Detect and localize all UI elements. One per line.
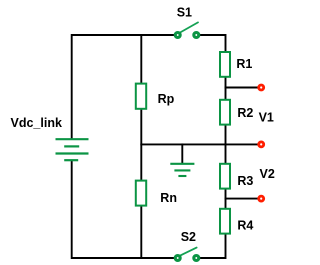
svg-text:Rn: Rn xyxy=(160,191,177,205)
svg-text:Vdc_link: Vdc_link xyxy=(11,116,62,130)
svg-text:V2: V2 xyxy=(260,167,275,181)
svg-text:S2: S2 xyxy=(181,230,196,244)
svg-text:R4: R4 xyxy=(237,219,253,233)
svg-text:R2: R2 xyxy=(237,106,253,120)
svg-text:R3: R3 xyxy=(237,174,253,188)
svg-text:V1: V1 xyxy=(259,110,274,124)
svg-text:S1: S1 xyxy=(177,5,192,19)
svg-text:Rp: Rp xyxy=(158,92,175,106)
svg-text:R1: R1 xyxy=(236,57,252,71)
